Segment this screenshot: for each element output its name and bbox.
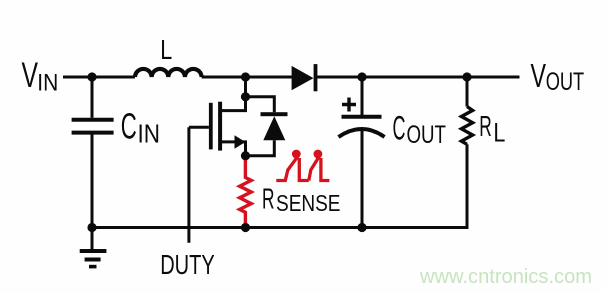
svg-text:C: C	[121, 105, 137, 146]
capacitor CIN	[72, 120, 114, 133]
label VIN	[22, 56, 59, 97]
drain lead	[222, 97, 246, 111]
wire COUT branch lower	[361, 130, 364, 228]
source lead	[222, 142, 246, 156]
wire drain node to top rail	[244, 77, 247, 97]
wire top rail middle segment	[202, 76, 293, 79]
svg-text:DUTY: DUTY	[160, 249, 215, 280]
svg-text:R: R	[479, 111, 492, 143]
gate lead	[189, 126, 209, 129]
inductor L	[135, 69, 202, 77]
label COUT	[393, 109, 447, 149]
resistor RL	[461, 107, 472, 145]
node junction dot drain/body-diode	[241, 92, 250, 101]
svg-text:www.cntronics.com: www.cntronics.com	[419, 265, 592, 288]
svg-text:R: R	[262, 184, 275, 216]
label RSENSE	[262, 184, 341, 217]
node A junction dot VIN/top rail	[87, 72, 96, 81]
node junction dot COUT top rail	[357, 72, 366, 81]
svg-text:C: C	[393, 109, 406, 147]
node junction dot RSENSE bottom	[241, 223, 250, 232]
transistor Q1 MOSFET	[189, 97, 246, 156]
label VOUT	[531, 57, 585, 96]
wire COUT branch upper	[361, 77, 364, 116]
svg-text:V: V	[531, 57, 547, 94]
waveform peak dots	[292, 150, 322, 159]
node junction dot RL top rail	[462, 72, 471, 81]
node junction dot drain top rail	[241, 72, 250, 81]
svg-text:IN: IN	[37, 70, 58, 97]
body diode of Q1	[246, 97, 288, 156]
channel bar	[218, 102, 222, 151]
source arrow	[235, 135, 246, 149]
wire CIN branch upper	[91, 77, 94, 118]
waveform icon (red current ramps)	[276, 157, 329, 181]
wire top rail left segment	[63, 76, 135, 79]
ground	[80, 251, 107, 267]
svg-text:V: V	[22, 56, 39, 95]
svg-text:OUT: OUT	[546, 69, 585, 96]
svg-text:L: L	[160, 34, 172, 65]
resistor RSENSE (red)	[240, 156, 252, 228]
wire top rail right segment	[317, 76, 520, 79]
wire RL branch upper	[466, 77, 469, 107]
gate bar	[209, 103, 213, 150]
node junction dot ground left	[87, 223, 96, 232]
diode D1	[292, 64, 318, 91]
wire CIN branch lower	[91, 135, 94, 228]
plus sign	[342, 98, 356, 112]
svg-text:SENSE: SENSE	[276, 190, 341, 216]
svg-text:L: L	[493, 117, 505, 147]
label CIN	[121, 105, 160, 148]
label RL	[479, 111, 505, 147]
node junction dot COUT bottom	[357, 223, 366, 232]
wire RL branch lower	[466, 144, 469, 229]
node junction dot source/RSENSE	[241, 151, 250, 160]
wire ground stem	[91, 228, 94, 250]
wire gate DUTY line	[187, 127, 190, 243]
wire bottom ground rail	[92, 226, 469, 229]
svg-text:IN: IN	[138, 119, 161, 149]
svg-text:OUT: OUT	[407, 122, 447, 149]
capacitor COUT	[339, 98, 385, 138]
